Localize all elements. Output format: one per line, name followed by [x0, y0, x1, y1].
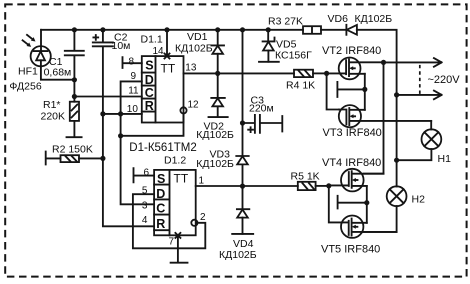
diode VD4 КД102Б [219, 186, 257, 261]
svg-text:14: 14 [153, 46, 165, 57]
wire gate tie VT2 VT3 [327, 73, 339, 109]
transistor VT4 IRF840 [322, 157, 384, 191]
wire top supply rail [41, 27, 396, 232]
svg-text:R2 150K: R2 150K [52, 144, 93, 156]
diode VD1 КД102Б [175, 30, 224, 74]
wire node C1/R1 to pin 11 (C input D1.1) [74, 96, 141, 98]
ground bar under VD2 [209, 116, 228, 118]
zener diode VD5 КС156Г [263, 30, 313, 62]
svg-text:6: 6 [144, 168, 150, 179]
svg-text:C: C [145, 86, 154, 100]
svg-text:VT3 IRF840: VT3 IRF840 [323, 127, 382, 139]
transistor VT3 IRF840 [323, 105, 432, 139]
wire pin 9 / pin 3 vertical bus [118, 81, 154, 204]
svg-text:КД102Б: КД102Б [355, 13, 393, 25]
ground bar under R1 [67, 136, 82, 138]
resistor R5 1K [291, 171, 332, 191]
svg-text:ФД256: ФД256 [9, 80, 41, 92]
svg-text:2: 2 [200, 212, 206, 223]
svg-text:C: C [156, 202, 165, 216]
wire source tie VT4 VT5 with chassis bar [338, 186, 370, 223]
svg-text:10: 10 [127, 104, 139, 115]
svg-text:0,68м: 0,68м [44, 67, 72, 79]
diode VD3 КД102Б [196, 149, 248, 187]
lamp H1 [394, 121, 451, 165]
svg-text:H2: H2 [412, 194, 426, 206]
svg-text:3: 3 [142, 200, 148, 211]
svg-text:КД102Б: КД102Б [175, 43, 213, 55]
svg-text:9: 9 [131, 71, 137, 82]
resistor R3 27K [268, 16, 321, 34]
svg-text:VT2 IRF840: VT2 IRF840 [322, 45, 381, 57]
capacitor C3 220м [240, 95, 282, 133]
output terminal arrows ~220V [384, 58, 461, 99]
svg-text:VD1: VD1 [187, 31, 208, 43]
svg-text:TT: TT [174, 172, 189, 186]
pin number labels D1.1 [127, 46, 199, 115]
svg-text:H1: H1 [438, 153, 452, 165]
svg-text:КД102Б: КД102Б [219, 249, 257, 261]
diode VD2 КД102Б [196, 73, 234, 141]
svg-text:HF1: HF1 [18, 66, 38, 78]
terminal bar pin 8 (S input D1.1) [123, 57, 142, 68]
svg-text:S: S [145, 59, 153, 73]
svg-text:12: 12 [188, 100, 200, 111]
wire pin 12 inverted output to bus [121, 114, 184, 136]
lamp H2 [387, 186, 425, 206]
svg-text:4: 4 [142, 215, 148, 226]
svg-text:7: 7 [169, 237, 175, 248]
svg-text:8: 8 [129, 57, 135, 68]
svg-text:КД102Б: КД102Б [196, 129, 234, 141]
svg-text:R3 27K: R3 27K [268, 16, 303, 28]
svg-text:220м: 220м [249, 103, 274, 115]
wire pin 1 output node to R5 [196, 184, 298, 189]
svg-text:S: S [157, 172, 165, 186]
svg-text:КС156Г: КС156Г [275, 50, 312, 62]
svg-text:R: R [156, 217, 165, 231]
ground bar under VD4 [232, 233, 253, 235]
svg-text:R1*: R1* [43, 99, 61, 111]
pin 14 supply wire with mark [165, 30, 170, 59]
transistor VT5 IRF840 [321, 216, 397, 256]
svg-text:13: 13 [185, 63, 197, 74]
svg-text:R: R [145, 99, 154, 113]
svg-text:КД102Б: КД102Б [196, 158, 234, 170]
svg-text:D1.2: D1.2 [164, 154, 186, 166]
svg-text:VT5 IRF840: VT5 IRF840 [321, 244, 380, 256]
photodiode HF1 ФД256 [9, 30, 50, 93]
svg-text:D: D [156, 187, 165, 201]
svg-text:R4 1K: R4 1K [286, 80, 315, 92]
transistor VT2 IRF840 [322, 45, 384, 79]
flip-flop D1.1 К561ТМ2 [141, 33, 187, 122]
wire C2 column down to pin 4 of D1.2 [100, 46, 154, 226]
svg-text:1: 1 [199, 175, 205, 186]
svg-text:TT: TT [161, 61, 176, 75]
svg-text:220K: 220K [41, 110, 66, 122]
resistor R4 1K [286, 70, 329, 92]
svg-text:VT4 IRF840: VT4 IRF840 [322, 157, 381, 169]
svg-text:5: 5 [142, 185, 148, 196]
diode VD6 КД102Б [328, 13, 393, 35]
svg-text:D: D [145, 73, 154, 87]
wire pin 13 output node [184, 71, 295, 76]
svg-text:VD6: VD6 [328, 13, 349, 25]
svg-text:~220V: ~220V [428, 74, 461, 86]
wire pin 2 to pin 5 feedback loop [133, 194, 205, 248]
terminal bar pin 6 (S input D1.2) [134, 168, 155, 182]
svg-text:D1-К561ТМ2: D1-К561ТМ2 [129, 142, 196, 154]
pin number labels D1.2 [142, 168, 206, 248]
wire source tie VT2 VT3 with chassis bar [337, 74, 367, 110]
flip-flop D1.2 [154, 154, 197, 235]
wire drain rail VT2/VT4 to output [364, 60, 386, 174]
resistor R2 150K [46, 144, 103, 165]
wire gate tie VT4 VT5 [329, 185, 341, 222]
svg-text:11: 11 [128, 85, 139, 96]
capacitor C2 10м [93, 30, 131, 52]
resistor R1 220K [41, 80, 80, 137]
wire node C2/R2 to pin 10 (R input D1.1) [103, 111, 142, 116]
svg-text:10м: 10м [112, 40, 131, 52]
capacitor C1 0,68м [44, 30, 84, 80]
pin 7 ground wire with mark [171, 233, 188, 263]
svg-text:D1.1: D1.1 [141, 33, 163, 45]
wire HF1 anode to C1 bottom node [41, 66, 77, 82]
wire VD3 column from rail through C3 node [242, 30, 244, 156]
ground bar under VD5 [259, 61, 279, 63]
svg-text:R5 1K: R5 1K [291, 171, 320, 183]
